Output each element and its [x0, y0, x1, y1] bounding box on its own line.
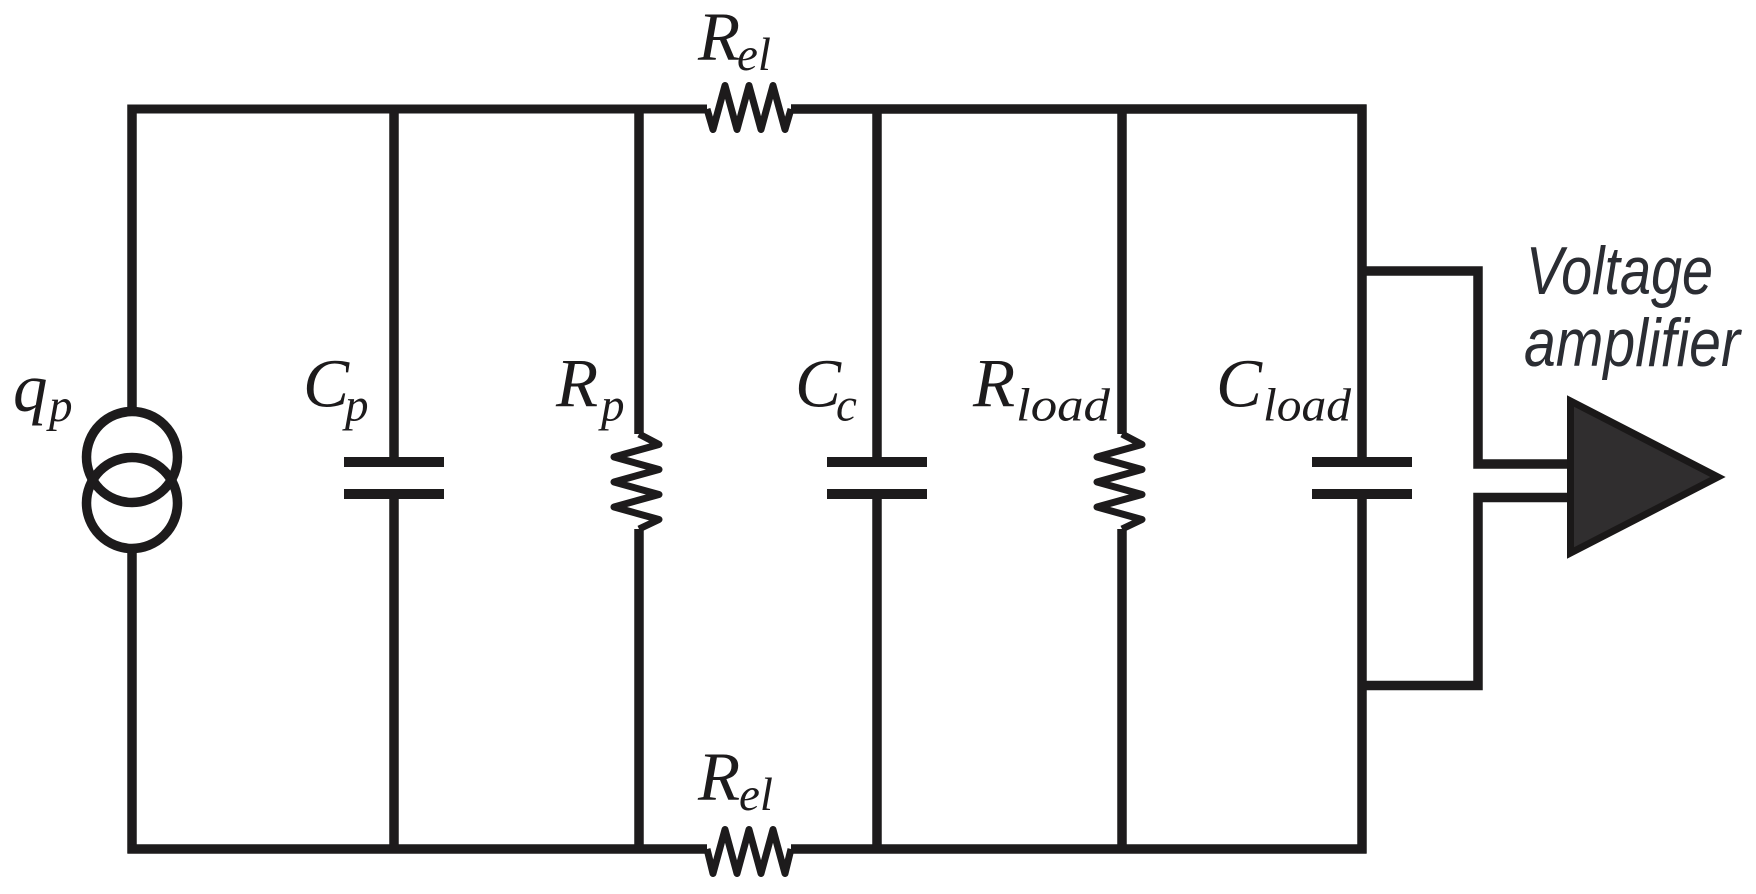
wire top rail right of Rel [791, 104, 1367, 114]
resistor R_load zigzag [1097, 434, 1142, 529]
svg-text:el: el [739, 769, 773, 821]
capacitor C_load plates [1312, 462, 1412, 494]
wire amplifier tap upper [1362, 271, 1572, 464]
label Voltage amplifier [1524, 233, 1742, 381]
label R_el (top) [697, 0, 771, 81]
label q_p [13, 350, 73, 432]
wire R_p branch upper [634, 109, 644, 434]
wire bottom rail left of Rel [128, 844, 708, 854]
wire C_p branch lower [389, 499, 399, 849]
svg-text:R: R [555, 346, 598, 422]
wire bottom rail right of Rel [791, 844, 1367, 854]
op-amp U1 voltage amplifier triangle [1571, 401, 1719, 553]
resistor R_el (top) zigzag [707, 86, 791, 130]
svg-text:c: c [836, 380, 857, 432]
svg-text:amplifier: amplifier [1524, 305, 1742, 381]
capacitor C_c plates [827, 462, 927, 494]
label C_c [795, 346, 857, 432]
label R_load [972, 346, 1111, 432]
svg-text:p: p [598, 380, 625, 432]
svg-text:Voltage: Voltage [1526, 233, 1713, 309]
svg-text:q: q [13, 350, 48, 426]
svg-text:p: p [342, 380, 369, 432]
svg-text:R: R [697, 739, 740, 815]
svg-text:R: R [972, 346, 1015, 422]
svg-text:p: p [46, 380, 73, 432]
svg-text:C: C [1216, 346, 1263, 422]
resistor R_p zigzag [614, 434, 659, 529]
wire C_c branch lower [872, 499, 882, 849]
current source q_p circle lower [87, 458, 178, 549]
wire R_load branch upper [1117, 109, 1127, 434]
wire R_p branch lower [634, 529, 644, 849]
svg-text:el: el [737, 29, 771, 81]
wire R_load branch lower [1117, 529, 1127, 849]
wire right rail upper [1357, 105, 1367, 458]
label R_el (bottom) [697, 739, 773, 821]
label C_p [303, 346, 369, 432]
wire C_p branch upper [389, 109, 399, 457]
wire C_c branch upper [872, 109, 882, 457]
label R_p [555, 346, 625, 432]
svg-text:load: load [1016, 380, 1111, 432]
svg-text:R: R [697, 0, 740, 75]
svg-text:C: C [795, 346, 842, 422]
wire right rail lower [1357, 499, 1367, 854]
wire left rail upper [127, 105, 137, 412]
svg-text:C: C [303, 346, 350, 422]
svg-text:load: load [1263, 380, 1352, 432]
wire left rail lower [127, 549, 137, 854]
wire amplifier tap lower [1362, 498, 1572, 686]
label C_load [1216, 346, 1352, 432]
wire top rail left of Rel [128, 105, 708, 114]
capacitor C_p plates [344, 462, 444, 494]
current source q_p circle upper [87, 412, 178, 503]
resistor R_el (bottom) zigzag [707, 830, 791, 874]
